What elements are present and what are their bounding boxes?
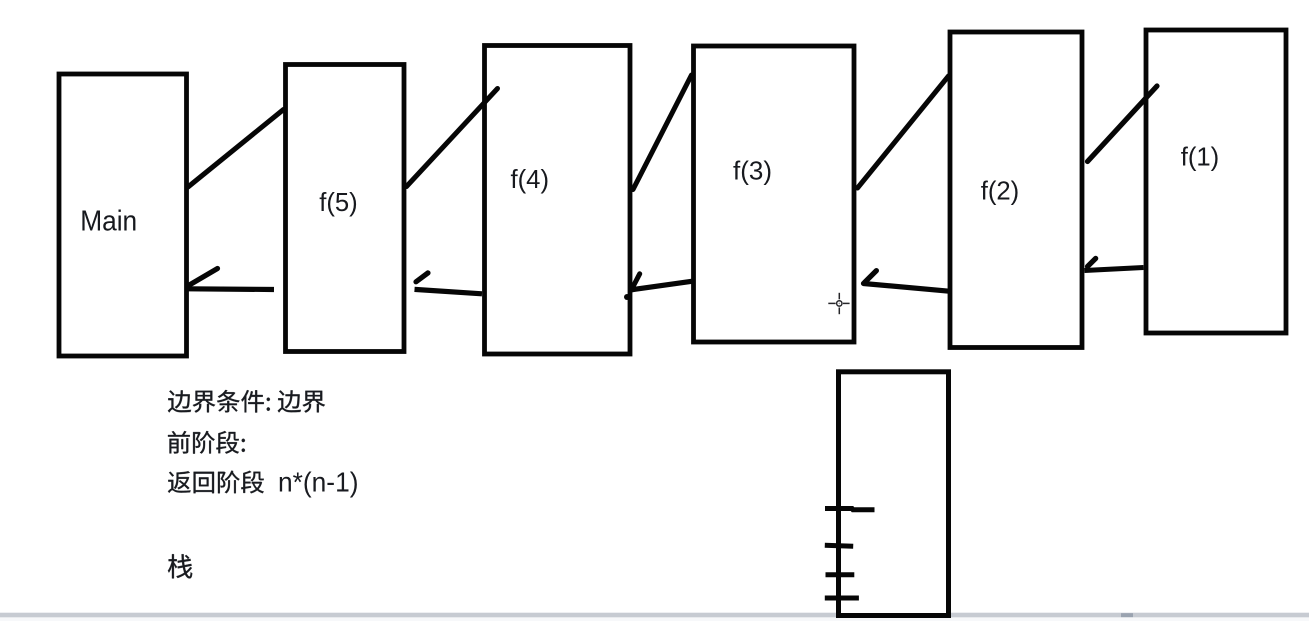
label f(3) [733, 155, 772, 185]
svg-text:f(5): f(5) [319, 187, 358, 217]
return arrow f(5) to Main : shaft [189, 269, 275, 290]
return arrow f(4) to f(5) : shaft [415, 273, 483, 294]
label f(2) [981, 175, 1020, 205]
svg-text:Main: Main [80, 205, 137, 237]
label f(5) [319, 187, 358, 217]
return arrow f(1) to f(2) : barb [1088, 258, 1096, 266]
taskbar body [0, 617, 1309, 621]
taskbar top border line [0, 613, 1309, 618]
stack box [839, 372, 949, 616]
text line: 前阶段: [168, 431, 245, 454]
return arrow f(5) to Main : barb [189, 269, 218, 286]
svg-text:f(2): f(2) [981, 175, 1020, 205]
return arrow f(2) to f(3) : shaft [864, 271, 950, 292]
svg-text:f(3): f(3) [733, 155, 772, 185]
call arrow f(5) to f(4) [407, 89, 498, 187]
text label: 栈 [168, 554, 192, 578]
box f(3) [694, 46, 855, 342]
return arrow f(3) to f(4) : barb [631, 274, 639, 290]
return arrow f(1) to f(2) : shaft [1085, 258, 1144, 270]
stack tick 2 [825, 543, 853, 549]
return arrow f(3) to f(4) : shaft [624, 274, 694, 300]
text line: 边界条件: 边界 [168, 390, 325, 413]
text formula n*(n-1) [278, 466, 359, 497]
box f(5) [286, 65, 405, 352]
call arrow f(4) to f(3) [633, 75, 692, 190]
svg-text:n*(n-1): n*(n-1) [278, 466, 359, 497]
box Main [59, 74, 187, 356]
text line: 返回阶段 [168, 471, 264, 494]
svg-text:f(1): f(1) [1181, 141, 1220, 171]
call arrow f(3) to f(2) [858, 76, 949, 188]
label Main [80, 205, 137, 237]
call arrow Main to f(5) [188, 110, 284, 188]
svg-text:f(4): f(4) [511, 164, 550, 194]
taskbar line darker dash [1121, 613, 1133, 617]
mouse cursor crosshair [828, 293, 849, 314]
box f(4) [485, 46, 631, 355]
stack tick 3 [826, 572, 855, 577]
box f(1) [1146, 30, 1286, 333]
return arrow f(4) to f(5) : barb [416, 273, 428, 282]
stack tick 1 [825, 509, 875, 510]
label f(1) [1181, 141, 1220, 171]
return arrow f(2) to f(3) : barb [865, 271, 877, 283]
label f(4) [511, 164, 550, 194]
box f(2) [950, 32, 1082, 348]
stack tick 4 [825, 596, 859, 601]
call arrow f(2) to f(1) [1088, 86, 1158, 162]
return arrow f(3) to f(4) : blob [624, 294, 630, 300]
